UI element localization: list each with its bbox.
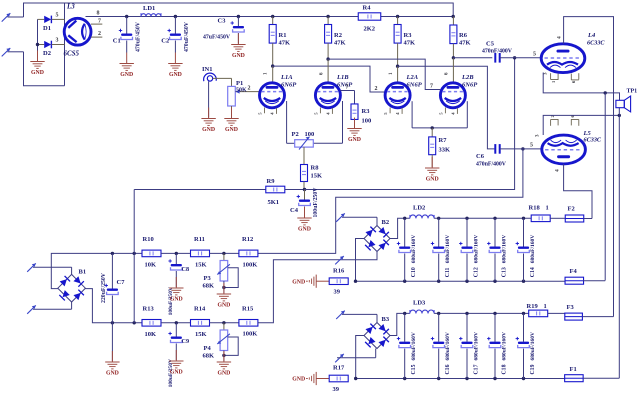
wire B2 negative rail — [354, 280, 566, 283]
wire input b bottom loop — [24, 52, 65, 86]
wire B3 positive rail — [434, 312, 529, 315]
resistor R8 15K — [301, 165, 323, 190]
svg-text:7: 7 — [430, 84, 433, 90]
svg-text:R12: R12 — [242, 236, 253, 243]
svg-text:C13: C13 — [502, 267, 508, 277]
wire B+ rail — [86, 15, 454, 18]
inductor LD3 — [410, 300, 434, 314]
svg-text:15K: 15K — [195, 262, 207, 269]
svg-text:GND: GND — [169, 72, 182, 78]
wire B3 negative rail — [354, 377, 565, 380]
AC input arrow (HT winding a) — [2, 13, 24, 21]
AC input arrow (LV winding a) — [27, 263, 71, 275]
fuse F4 — [565, 268, 605, 284]
svg-text:680uF/160V: 680uF/160V — [474, 332, 480, 360]
resistor R18 1 — [529, 205, 551, 222]
diode D1 — [38, 13, 65, 33]
resistor R12 100K — [239, 236, 258, 269]
svg-text:GND: GND — [298, 226, 311, 232]
svg-text:LD1: LD1 — [143, 5, 155, 12]
wire L2A/L2B cathode bus — [412, 101, 467, 129]
svg-text:47K: 47K — [279, 40, 291, 47]
power triode L5 6C33C — [536, 115, 602, 173]
wire P2 wiper to R8 — [303, 147, 305, 165]
capacitor C16 680uF/160V — [431, 313, 451, 378]
svg-text:R17: R17 — [333, 365, 345, 372]
svg-text:68K: 68K — [203, 353, 215, 360]
svg-text:LD2: LD2 — [413, 205, 425, 212]
potentiometer P3 68K — [203, 253, 239, 293]
svg-text:B3: B3 — [382, 316, 390, 323]
node C5/L4 grid — [500, 52, 541, 60]
svg-text:2: 2 — [248, 86, 251, 92]
ground GND (R7) — [425, 157, 439, 182]
svg-text:6C33C: 6C33C — [587, 40, 605, 47]
resistor R16 39 — [329, 268, 348, 296]
svg-text:F2: F2 — [568, 206, 575, 213]
capacitor C12 680uF/160V — [459, 218, 479, 281]
wire R11-R12 — [210, 252, 241, 255]
inductor LD2 — [410, 205, 434, 219]
capacitor C13 680uF/160V — [487, 218, 507, 281]
rectifier tube L3 6CS5 — [64, 3, 92, 58]
capacitor C19 680uF/160V — [516, 313, 536, 378]
wire L5 cathode to speaker return — [543, 108, 621, 135]
svg-text:R4: R4 — [363, 5, 372, 12]
ground GND (IN1) — [201, 108, 215, 133]
capacitor C2 470uF/450V — [161, 17, 190, 53]
svg-text:C11: C11 — [445, 267, 451, 277]
svg-text:R19: R19 — [527, 303, 539, 310]
svg-text:R9: R9 — [267, 178, 276, 185]
node L1A anode / wire to L2A grid — [271, 64, 385, 92]
svg-text:50K: 50K — [236, 87, 247, 93]
svg-text:100K: 100K — [243, 262, 258, 269]
svg-text:680uF/160V: 680uF/160V — [411, 332, 417, 360]
svg-text:L3: L3 — [66, 3, 75, 11]
capacitor C14 680uF/160V — [516, 218, 536, 281]
svg-text:R13: R13 — [143, 305, 155, 312]
wire L1B grid pin7 to R3 — [340, 85, 354, 105]
node L2B anode / wire to C5 — [452, 56, 493, 83]
ground GND (C8) — [169, 277, 183, 302]
wire B1 minus rail — [85, 289, 142, 325]
triode L2A 6N6P — [383, 72, 423, 115]
svg-text:GND: GND — [225, 127, 238, 133]
ground GND (P1) — [224, 108, 238, 133]
resistor R10 10K — [142, 236, 161, 269]
svg-text:100: 100 — [305, 131, 315, 138]
svg-text:6N6P: 6N6P — [462, 82, 478, 89]
capacitor C5 470nF/400V — [482, 41, 513, 63]
node R8/R9/C4 junction / wire to L4 grid — [303, 58, 515, 191]
svg-text:GND: GND — [292, 377, 305, 383]
svg-text:470uF/450V: 470uF/450V — [184, 21, 190, 52]
potentiometer P4 68K — [203, 323, 239, 361]
capacitor C9 100uF/250V — [168, 323, 189, 388]
svg-text:8: 8 — [97, 11, 100, 17]
wire C7 to ground — [111, 323, 113, 361]
svg-text:B2: B2 — [382, 219, 390, 226]
resistor R4 2K2 — [358, 5, 381, 33]
svg-text:39: 39 — [334, 289, 341, 296]
ground GND (C9) — [169, 350, 183, 375]
node L1B anode / wire to L2B grid — [326, 57, 440, 89]
svg-text:R8: R8 — [311, 165, 320, 172]
wire diode anode bus — [36, 19, 39, 50]
capacitor C3 47uF/450V — [203, 17, 244, 44]
svg-text:47K: 47K — [459, 40, 471, 47]
wire input a to top rail (runs across sheet to R6 top) — [24, 3, 454, 17]
AC input arrow (LV winding b) — [27, 302, 71, 314]
svg-text:GND: GND — [292, 279, 305, 285]
resistor R1 47K — [269, 17, 290, 67]
capacitor C15 680uF/160V — [397, 313, 417, 378]
svg-text:GND: GND — [348, 137, 361, 143]
svg-text:6N6P: 6N6P — [281, 82, 297, 89]
wire B2 plus to LD2 rail — [390, 217, 410, 239]
fuse F2 — [550, 206, 592, 223]
svg-text:3: 3 — [56, 38, 59, 44]
svg-text:5: 5 — [533, 52, 536, 58]
svg-text:F3: F3 — [567, 304, 575, 311]
svg-text:C14: C14 — [530, 267, 536, 277]
resistor R6 47K — [450, 15, 471, 58]
AC input arrow (B3 winding b) — [335, 349, 376, 363]
node L2A anode / wire to C6 — [396, 65, 495, 149]
svg-text:C4: C4 — [290, 207, 299, 214]
svg-text:TP1: TP1 — [627, 89, 638, 95]
svg-text:5K1: 5K1 — [268, 199, 280, 206]
resistor R14 15K — [191, 305, 210, 338]
input connector IN1 — [202, 66, 232, 81]
svg-text:C1: C1 — [113, 38, 121, 45]
svg-text:R15: R15 — [242, 305, 254, 312]
capacitor C8 100uF/250V — [168, 253, 189, 315]
wire feedback R9 to B1 rail — [133, 190, 135, 323]
svg-text:47K: 47K — [334, 40, 346, 47]
capacitor C18 680uF/160V — [487, 313, 507, 378]
resistor R13 10K — [142, 305, 161, 338]
wire R15 to B2 AC input — [258, 252, 377, 323]
wire speaker return vertical — [604, 93, 606, 281]
ground GND (R3) — [347, 118, 361, 143]
svg-text:2: 2 — [375, 86, 378, 92]
wire L5 anode to F2 — [564, 164, 592, 219]
svg-text:15K: 15K — [311, 173, 323, 180]
capacitor C6 470nF/400V — [476, 144, 507, 167]
svg-text:R3: R3 — [404, 32, 413, 39]
svg-text:L1B: L1B — [336, 74, 349, 81]
svg-text:470nF/400V: 470nF/400V — [476, 162, 507, 168]
ground GND (C4) — [297, 207, 311, 232]
svg-text:L4: L4 — [587, 32, 596, 39]
svg-text:6C33C: 6C33C — [584, 137, 602, 144]
svg-text:GND: GND — [217, 370, 230, 376]
svg-text:680uF/160V: 680uF/160V — [474, 235, 480, 263]
capacitor C11 680uF/160V — [431, 218, 451, 281]
svg-text:C7: C7 — [117, 279, 126, 286]
potentiometer P1 50K — [228, 78, 260, 117]
svg-text:680uF/160V: 680uF/160V — [502, 332, 508, 360]
resistor R2 47K — [325, 17, 346, 60]
capacitor C1 470uF/450V — [113, 17, 142, 53]
svg-text:R16: R16 — [333, 268, 345, 275]
wire R13-R14 — [161, 321, 192, 324]
svg-text:GND: GND — [170, 369, 183, 375]
svg-text:GND: GND — [31, 70, 44, 76]
svg-text:L1A: L1A — [280, 74, 293, 81]
svg-text:R10: R10 — [143, 236, 154, 243]
svg-text:C19: C19 — [530, 364, 536, 374]
svg-text:5: 5 — [56, 13, 59, 19]
AC input arrow (HT winding b) — [2, 48, 24, 56]
svg-text:15K: 15K — [195, 331, 207, 338]
capacitor C10 680uF/160V — [397, 218, 417, 281]
ground GND (rectifier centre tap) — [30, 51, 44, 76]
svg-text:F1: F1 — [570, 366, 577, 373]
svg-text:C9: C9 — [182, 338, 190, 345]
wire R10-R11 — [161, 252, 192, 255]
svg-text:10K: 10K — [145, 262, 157, 269]
capacitor C4 100uF/250V — [290, 187, 319, 218]
svg-text:IN1: IN1 — [202, 66, 212, 73]
svg-text:R3: R3 — [362, 108, 371, 115]
bridge rectifier B3 — [364, 316, 390, 349]
svg-text:C18: C18 — [502, 364, 508, 374]
triode L1B 6N6P — [313, 72, 353, 115]
svg-text:L2A: L2A — [406, 74, 419, 81]
pin 7 stub — [91, 19, 102, 25]
svg-text:10K: 10K — [145, 331, 157, 338]
AC input arrow (B3 winding a) — [336, 311, 377, 323]
pin 2 stub — [91, 31, 102, 37]
resistor R9 5K1 — [134, 178, 304, 206]
svg-text:47uF/450V: 47uF/450V — [203, 35, 231, 41]
svg-text:4: 4 — [555, 169, 561, 172]
svg-text:C10: C10 — [411, 267, 417, 277]
svg-text:680uF/160V: 680uF/160V — [530, 235, 536, 263]
wire C6 feedback to R12 — [257, 149, 523, 254]
diode D2 — [38, 38, 65, 58]
bridge rectifier B2 — [364, 219, 390, 252]
wire B2 positive rail — [434, 217, 531, 220]
wire R14-R15 — [210, 321, 241, 324]
svg-text:F4: F4 — [570, 268, 578, 275]
resistor R3 100 (cathode) — [351, 104, 371, 128]
svg-text:C15: C15 — [411, 364, 417, 374]
wire B2 minus to R16 rail — [356, 239, 365, 282]
pin 8 label — [97, 11, 100, 17]
resistor R17 39 — [329, 365, 348, 393]
svg-text:P4: P4 — [204, 345, 212, 352]
AC input arrow (B2 winding a) — [336, 213, 377, 225]
svg-text:6N6P: 6N6P — [407, 82, 423, 89]
resistor R3 47K — [394, 17, 415, 67]
svg-text:C12: C12 — [474, 267, 480, 277]
svg-text:R18: R18 — [529, 205, 541, 212]
svg-text:GND: GND — [232, 53, 245, 59]
ground GND (R17) — [292, 372, 329, 385]
wire L1B cathode to P2 — [313, 101, 342, 143]
fuse F1 — [565, 366, 620, 382]
svg-text:D1: D1 — [43, 25, 51, 32]
svg-text:680uF/160V: 680uF/160V — [530, 332, 536, 360]
ground GND (C1) — [120, 53, 134, 78]
svg-text:R14: R14 — [194, 305, 206, 312]
ground GND (C3) — [231, 34, 245, 59]
svg-text:1: 1 — [546, 205, 549, 212]
svg-text:470uF/450V: 470uF/450V — [136, 21, 142, 52]
svg-text:C6: C6 — [476, 153, 485, 160]
svg-text:R2: R2 — [334, 32, 342, 39]
svg-text:680uF/160V: 680uF/160V — [445, 235, 451, 263]
wire IN1 shield to ground — [208, 81, 210, 117]
svg-text:68K: 68K — [203, 283, 215, 290]
svg-text:7: 7 — [346, 85, 349, 91]
svg-text:B1: B1 — [79, 269, 87, 276]
svg-text:5: 5 — [530, 143, 533, 149]
wire B3 minus to R17 rail — [356, 336, 365, 379]
svg-text:LD3: LD3 — [413, 300, 426, 307]
svg-text:R11: R11 — [194, 236, 205, 243]
svg-text:GND: GND — [120, 72, 133, 78]
ground GND (C2) — [168, 53, 182, 78]
ground GND (C7) — [105, 351, 119, 376]
resistor R7 33K — [429, 128, 450, 167]
speaker TP1 — [616, 89, 637, 112]
svg-text:680uF/160V: 680uF/160V — [411, 235, 417, 263]
svg-text:680uF/160V: 680uF/160V — [445, 332, 451, 360]
wire B1 plus to R10 rail — [51, 252, 142, 289]
svg-text:33K: 33K — [439, 147, 451, 154]
resistor R15 100K — [239, 305, 258, 337]
svg-text:C17: C17 — [474, 364, 480, 374]
svg-text:R7: R7 — [439, 137, 448, 144]
wire L4 cathode to speaker — [543, 73, 619, 101]
bridge rectifier B1 — [58, 269, 86, 303]
power triode L4 6C33C — [541, 32, 605, 83]
svg-text:GND: GND — [106, 370, 119, 376]
wire L4 anode rail — [564, 17, 614, 317]
svg-text:P3: P3 — [204, 275, 212, 282]
svg-text:1: 1 — [544, 303, 547, 310]
ground GND (P4) — [217, 351, 231, 376]
resistor R19 1 — [527, 303, 548, 317]
node C6/L5 grid — [500, 143, 541, 151]
wire B3 plus to LD3 rail — [390, 312, 410, 336]
wire speaker negative feed vertical — [618, 115, 620, 378]
svg-text:100K: 100K — [243, 331, 258, 338]
svg-text:220uF/250V: 220uF/250V — [101, 272, 107, 303]
svg-text:GND: GND — [170, 296, 183, 302]
svg-text:2: 2 — [98, 31, 101, 37]
svg-text:C8: C8 — [182, 266, 190, 273]
ground GND (P3) — [217, 283, 231, 308]
svg-text:680uF/160V: 680uF/160V — [502, 235, 508, 263]
wire L1A cathode to P2 — [287, 101, 295, 143]
svg-text:39: 39 — [333, 386, 340, 393]
svg-text:7: 7 — [98, 19, 101, 25]
capacitor C7 220uF/250V — [101, 253, 125, 322]
ground GND (R16) — [292, 275, 329, 288]
svg-text:L2B: L2B — [461, 74, 474, 81]
svg-text:R6: R6 — [459, 32, 468, 39]
svg-text:R1: R1 — [279, 32, 287, 39]
svg-text:P1: P1 — [236, 80, 243, 87]
svg-text:47K: 47K — [404, 40, 416, 47]
resistor R11 15K — [191, 236, 210, 269]
fuse F3 — [548, 304, 614, 320]
svg-text:100: 100 — [362, 118, 372, 125]
svg-text:GND: GND — [202, 127, 215, 133]
svg-text:D2: D2 — [43, 50, 51, 57]
triode L2B 6N6P — [438, 72, 478, 115]
svg-text:2K2: 2K2 — [364, 26, 376, 33]
svg-text:4: 4 — [557, 36, 563, 39]
capacitor C17 680uF/160V — [459, 313, 479, 378]
svg-text:C16: C16 — [445, 364, 451, 374]
svg-text:470nF/400V: 470nF/400V — [482, 49, 513, 55]
svg-text:C5: C5 — [486, 41, 495, 48]
svg-text:C2: C2 — [161, 38, 169, 45]
triode L1A 6N6P — [258, 72, 298, 115]
svg-text:GND: GND — [217, 302, 230, 308]
inductor LD1 — [141, 5, 161, 17]
svg-text:GND: GND — [426, 176, 439, 182]
potentiometer P2 100 — [292, 131, 315, 150]
svg-text:6CS5: 6CS5 — [64, 50, 80, 58]
svg-text:C3: C3 — [218, 18, 227, 25]
wire plate bus vertical — [64, 3, 66, 86]
svg-text:P2: P2 — [292, 131, 299, 138]
svg-text:100uF/250V: 100uF/250V — [313, 187, 319, 218]
